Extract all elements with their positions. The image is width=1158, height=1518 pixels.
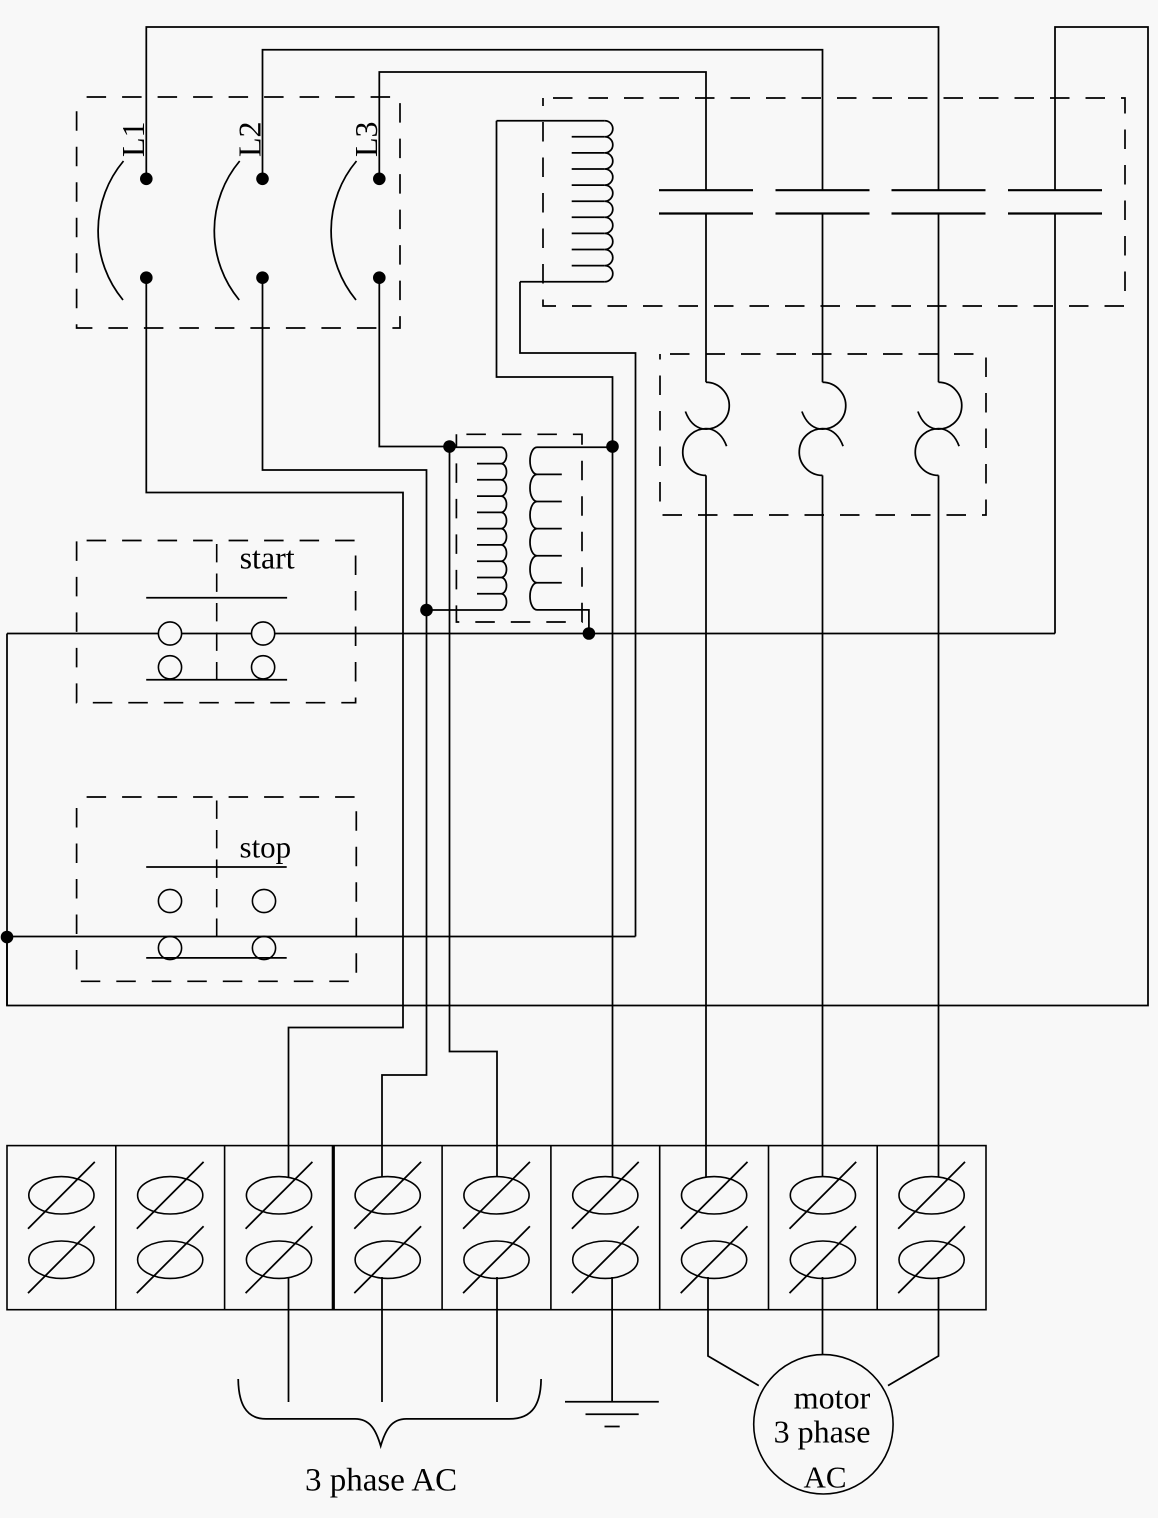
- contactor coil M: [497, 121, 613, 282]
- wire transformer secondary bottom to start wire: [574, 610, 589, 634]
- wire L2 bottom to terminal 4: [263, 278, 427, 1177]
- terminal 2 screws: [137, 1162, 204, 1293]
- wire contact 1 to overload 1: [705, 214, 707, 383]
- overload heater OL3: [915, 382, 961, 475]
- disconnect switch L2: [214, 121, 269, 300]
- overload heater OL1: [683, 382, 729, 475]
- wire terminal 7 to motor: [708, 1277, 759, 1386]
- wire coil top to transformer secondary top: [497, 121, 613, 447]
- node transformer primary top: [443, 440, 456, 453]
- wire contact 2 to overload 2: [822, 214, 824, 383]
- wire contact 3 to overload 3: [938, 214, 940, 383]
- control transformer enclosure: [456, 434, 582, 622]
- terminal 1 screws: [28, 1162, 95, 1293]
- svg-text:motor: motor: [794, 1380, 871, 1416]
- svg-text:3 phase AC: 3 phase AC: [305, 1463, 457, 1499]
- svg-text:start: start: [240, 539, 295, 575]
- wire L1 to contact 3: [146, 27, 938, 190]
- wire start rail: [7, 633, 158, 635]
- disconnect switch L1: [98, 121, 153, 300]
- wire overload 1 to terminal 7: [705, 475, 707, 1177]
- wire terminal 4 to 3-phase source: [381, 1277, 383, 1402]
- stop button enclosure: [77, 797, 357, 981]
- wire L1 bottom to terminal 3: [146, 278, 403, 1177]
- svg-text:AC: AC: [803, 1460, 846, 1495]
- node transformer primary bottom: [420, 604, 433, 617]
- contactor contact 2: [776, 190, 870, 213]
- svg-text:3 phase: 3 phase: [774, 1414, 871, 1450]
- transformer T1 secondary winding: [530, 447, 613, 610]
- wire terminal 3 to 3-phase source: [288, 1277, 290, 1402]
- ground: [565, 1402, 659, 1427]
- contactor contact 1: [659, 190, 753, 213]
- stop button: [146, 797, 291, 960]
- wire coil bottom to stop wire: [520, 282, 636, 937]
- wire terminal 8 to motor: [822, 1277, 824, 1355]
- wire seal-in contact to start wire: [1054, 214, 1056, 634]
- svg-text:stop: stop: [240, 830, 292, 865]
- wire L3 to contact 1: [379, 72, 706, 190]
- terminal 3 screws: [246, 1162, 313, 1293]
- enclosure: disconnect switch box: [77, 97, 400, 328]
- wire stop rail to seal-in contact top: [7, 27, 1148, 1006]
- wire overload 2 to terminal 8: [822, 475, 824, 1177]
- wire transformer secondary top to terminal 6: [612, 447, 614, 1178]
- wire overload 3 to terminal 9: [938, 475, 940, 1177]
- terminal 7 screws: [681, 1162, 748, 1293]
- node stop rail junction: [1, 931, 14, 944]
- transformer T1 primary winding: [427, 447, 507, 610]
- wire start left rail down: [6, 634, 8, 1006]
- terminal 4 screws: [354, 1162, 421, 1293]
- terminal 8 screws: [790, 1162, 857, 1293]
- wire L3 bottom to terminal 5: [379, 278, 497, 1177]
- start button: [146, 539, 295, 680]
- wire L2 to contact 2: [263, 50, 823, 190]
- terminal 5 screws: [463, 1162, 530, 1293]
- 3 phase AC source label: [238, 1379, 541, 1499]
- wire stop button to coil bottom: [7, 936, 636, 938]
- wire start button to seal-in contact: [275, 633, 1055, 635]
- contactor seal-in contact 4: [1008, 190, 1102, 213]
- wire terminal 9 to motor: [888, 1277, 939, 1386]
- terminal block: [7, 1146, 986, 1310]
- wire terminal 6 to ground: [611, 1277, 613, 1402]
- start button enclosure: [77, 541, 356, 703]
- disconnect switch L3: [331, 121, 386, 300]
- terminal 6 screws: [572, 1162, 639, 1293]
- wire terminal 5 to 3-phase source: [496, 1277, 498, 1402]
- contactor contact 3: [892, 190, 986, 213]
- contactor enclosure: [543, 98, 1125, 306]
- wire start button bridge: [182, 633, 252, 635]
- motor M1: [754, 1355, 893, 1495]
- overload relay enclosure: [660, 354, 986, 515]
- terminal 9 screws: [898, 1162, 965, 1293]
- node transformer secondary top: [606, 440, 619, 453]
- node transformer secondary bottom: [583, 627, 596, 640]
- overload heater OL2: [799, 382, 845, 475]
